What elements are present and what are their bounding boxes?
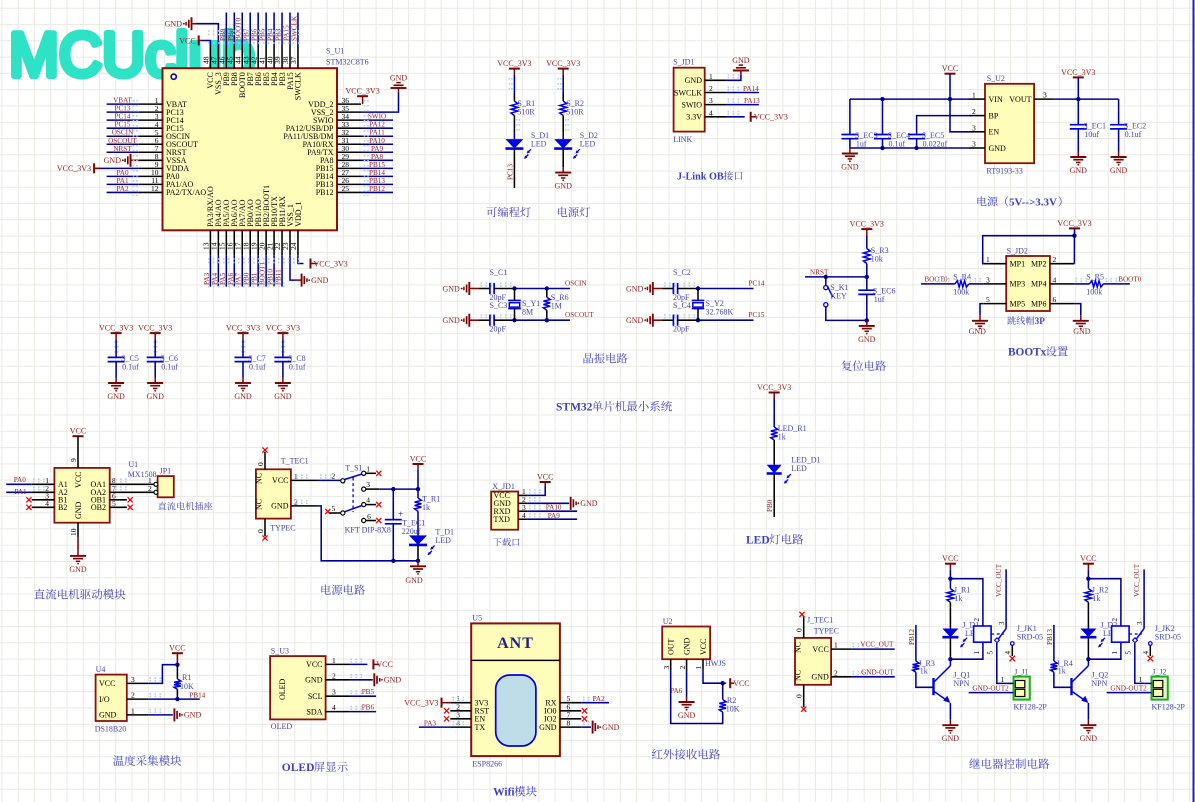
wire S_C5 to ground xyxy=(115,362,117,378)
mcu pin 13 PA3/RX/AO xyxy=(209,230,211,255)
jumper S_JD2 body xyxy=(1006,256,1050,311)
compile marks oled xyxy=(351,658,364,660)
led J_D2 xyxy=(1080,629,1096,638)
svg-text:2: 2 xyxy=(973,618,981,622)
wire S_U3 VCC xyxy=(349,663,367,665)
svg-text:NPN: NPN xyxy=(1091,679,1107,688)
caption reset circuit xyxy=(842,361,852,371)
svg-text:PA10: PA10 xyxy=(369,137,385,145)
wire S_EC5 bottom xyxy=(916,139,918,148)
svg-text:GND: GND xyxy=(274,392,292,401)
ground below J_Q1 xyxy=(949,720,951,726)
mcu pin 38 PA15 xyxy=(289,46,291,69)
svg-text:6: 6 xyxy=(367,512,371,521)
svg-text:SWIO: SWIO xyxy=(682,100,703,109)
wire net OSCOUT xyxy=(107,143,139,145)
mcu pin 10 PA0 xyxy=(139,175,163,177)
wire net PB5 xyxy=(265,13,267,46)
wire S_EC4 bottom xyxy=(882,139,884,148)
svg-text:0.1uf: 0.1uf xyxy=(889,140,906,149)
mcu pin 47 VSS_3 xyxy=(217,46,219,69)
compile marks right of mcu xyxy=(364,100,366,196)
svg-text:GND: GND xyxy=(678,711,696,720)
wire NRST xyxy=(805,276,867,278)
svg-text:VCC_3V3: VCC_3V3 xyxy=(850,220,884,229)
svg-text:GND: GND xyxy=(1073,327,1091,336)
ir receiver U2 body xyxy=(662,627,710,660)
wire S_EC2 to ground xyxy=(1118,129,1120,152)
svg-text:GND: GND xyxy=(989,144,1007,153)
svg-text:NC: NC xyxy=(794,670,803,681)
capacitor S_C5 0.1uf xyxy=(108,356,125,358)
power port VCC_3V3 bootx xyxy=(1069,227,1080,229)
svg-text:1: 1 xyxy=(294,472,298,481)
wire S_D2 to ground xyxy=(562,149,564,168)
T_TEC1 bottom stub NC xyxy=(264,519,266,537)
mcu pin 45 PB8 xyxy=(233,46,235,69)
wire crystal top xyxy=(697,289,699,301)
svg-text:5V-->3.3V: 5V-->3.3V xyxy=(1009,197,1057,209)
mcu pin 27 PB14 xyxy=(337,175,361,177)
wire net SWIO xyxy=(361,119,393,121)
wire net SWCLK xyxy=(297,13,299,46)
svg-text:VCC: VCC xyxy=(169,644,185,653)
power port VCC above X_JD1 xyxy=(540,481,551,483)
svg-text:PA6: PA6 xyxy=(670,687,683,695)
wire OA2 to JP1 pin2 xyxy=(110,491,154,493)
J_TEC1 bottom stub NC xyxy=(803,685,805,707)
wire wifi GND xyxy=(581,726,591,728)
wire S_R6 top xyxy=(546,289,548,298)
svg-text:32.768K: 32.768K xyxy=(706,308,734,317)
svg-text:PB9: PB9 xyxy=(219,28,227,41)
svg-text:J-Link OB: J-Link OB xyxy=(677,172,724,183)
svg-text:T_S1: T_S1 xyxy=(345,464,362,473)
svg-text:3.3V: 3.3V xyxy=(686,113,702,122)
svg-text:SRD-05: SRD-05 xyxy=(1155,633,1181,642)
wire J_D2 to collector node xyxy=(1087,637,1089,659)
svg-text:PA8: PA8 xyxy=(371,153,384,161)
wifi U5 ESP8266 body xyxy=(471,623,560,756)
svg-text:B2: B2 xyxy=(58,503,67,512)
mcu pin 21 PB10/TX xyxy=(273,230,275,255)
regulator pin GND xyxy=(969,147,985,149)
svg-text:37: 37 xyxy=(289,56,298,64)
power port VCC input xyxy=(945,73,956,75)
wire LED_R1 to LED_D1 xyxy=(773,440,775,465)
svg-text:VCC_OUT: VCC_OUT xyxy=(995,563,1003,597)
wire net BOOT1 xyxy=(265,255,267,286)
svg-text:1: 1 xyxy=(972,91,976,100)
svg-text:PA10: PA10 xyxy=(546,504,562,512)
svg-text:MP5: MP5 xyxy=(1010,299,1026,308)
svg-text:GND: GND xyxy=(442,284,460,293)
wire T_EC1 to bus xyxy=(392,524,394,561)
svg-text:5: 5 xyxy=(332,504,336,513)
T_TEC1 pin 1 VCC xyxy=(291,479,318,481)
wire S_EC2 top xyxy=(1118,99,1120,125)
svg-text:0.1uf: 0.1uf xyxy=(1125,130,1142,139)
mcu pin 31 PA10/RX xyxy=(337,143,361,145)
svg-text:GND: GND xyxy=(732,56,750,65)
wire jlink pin4 to VCC_3V3 xyxy=(727,116,745,118)
wire net PB6 xyxy=(257,13,259,46)
svg-text:LED: LED xyxy=(580,140,596,149)
jumper pins MP3 MP4 xyxy=(984,283,1007,285)
relay J_JK1 common contact xyxy=(1005,569,1007,628)
svg-text:VBAT: VBAT xyxy=(113,97,132,105)
svg-text:EN: EN xyxy=(989,128,1000,137)
J_TEC1 pin 2 GND xyxy=(831,676,851,678)
J_TEC1 top stub NC xyxy=(803,616,805,638)
svg-text:GND: GND xyxy=(626,284,644,293)
svg-text:BOOT0: BOOT0 xyxy=(1118,276,1142,284)
svg-text:25: 25 xyxy=(342,184,350,193)
wire S_U3 GND xyxy=(349,679,373,681)
no connect OB2 xyxy=(128,505,133,510)
regulator pin VOUT xyxy=(1034,98,1053,100)
mcu pin 46 PB9 xyxy=(225,46,227,69)
ground below reset xyxy=(866,320,868,326)
compile marks wifi xyxy=(453,697,466,699)
svg-text:3: 3 xyxy=(709,96,713,105)
wire net PA10 xyxy=(528,510,577,512)
no connect wifi RST xyxy=(444,708,449,713)
svg-text:GND: GND xyxy=(99,711,117,720)
svg-text:GND: GND xyxy=(104,156,122,165)
U1 pin 2 A2 xyxy=(32,491,55,493)
svg-text:1k: 1k xyxy=(1092,594,1100,603)
ground below S_C5 xyxy=(115,378,117,384)
svg-text:1k: 1k xyxy=(422,503,430,512)
wire S_C2 to net PC14 xyxy=(678,288,698,290)
power port VCC_3V3 above S_R1 xyxy=(509,68,520,70)
capacitor S_EC2 0.1uf xyxy=(1110,124,1127,126)
wire vcc to relay coil xyxy=(950,579,983,626)
svg-text:J_J2: J_J2 xyxy=(1152,667,1166,676)
S_U3 pin 3 SCL xyxy=(326,695,349,697)
wire S_D1 to net PC13 xyxy=(513,149,515,188)
caption power LED xyxy=(558,207,567,217)
svg-text:PA4: PA4 xyxy=(211,272,219,285)
svg-text:X_JD1: X_JD1 xyxy=(492,482,515,491)
svg-text:PA15: PA15 xyxy=(283,25,291,41)
svg-text:3: 3 xyxy=(998,621,1006,625)
wire crystal bottom xyxy=(697,309,699,321)
svg-text:3: 3 xyxy=(662,666,671,670)
power port VCC relay J_JK1 xyxy=(945,563,956,565)
svg-text:PA2: PA2 xyxy=(116,185,129,193)
T_TEC1 pin 2 GND xyxy=(291,505,318,507)
ground below S_EC3 xyxy=(849,148,851,154)
wire net PA1 xyxy=(107,183,139,185)
svg-text:PA9: PA9 xyxy=(371,145,384,153)
svg-text:VCC_3V3: VCC_3V3 xyxy=(99,324,133,333)
svg-text:KF128-2P: KF128-2P xyxy=(1014,703,1048,712)
mcu pin 29 PA8 xyxy=(337,159,361,161)
svg-text:PB15: PB15 xyxy=(369,161,385,169)
mcu pin 2 PC13 xyxy=(139,111,163,113)
svg-text:2: 2 xyxy=(294,497,298,506)
wire S_C1 to net OSCIN xyxy=(494,288,514,290)
power port VCC above T_R1 xyxy=(413,463,424,465)
capacitor S_EC1 10uf xyxy=(1070,124,1087,126)
no connect B2 xyxy=(26,505,31,510)
annotation DC motor socket xyxy=(158,502,166,510)
mcu pin 33 PA12/USB/DP xyxy=(337,127,361,129)
compile marks left of mcu xyxy=(133,100,135,196)
relay J_JK2 common contact xyxy=(1143,569,1145,628)
svg-text:GND: GND xyxy=(184,711,202,720)
wifi pin 7 IO2 xyxy=(560,718,581,720)
wire S_C7 to ground xyxy=(242,362,244,378)
svg-text:VCC_3V3: VCC_3V3 xyxy=(757,383,791,392)
svg-text:GND: GND xyxy=(271,502,289,511)
caption temperature module xyxy=(113,755,124,765)
svg-text:2: 2 xyxy=(1053,255,1057,264)
wire to S_C7 xyxy=(242,339,244,357)
svg-text:SWCLK: SWCLK xyxy=(294,72,303,100)
svg-text:MP6: MP6 xyxy=(1031,299,1047,308)
led T_D1 xyxy=(409,535,427,545)
svg-text:GND: GND xyxy=(69,565,87,574)
svg-text:1: 1 xyxy=(332,656,336,665)
wire S_EC5 top xyxy=(916,132,918,134)
connector J_J1 KF128-2P body xyxy=(1014,677,1030,700)
ground above jlink xyxy=(740,71,742,76)
svg-text:VCC: VCC xyxy=(74,472,83,488)
wire emitter to ground xyxy=(949,703,951,720)
wifi pin 8 GND xyxy=(560,726,581,728)
mcu pin 15 PA5/AO xyxy=(225,230,227,255)
wire to S_R3 xyxy=(866,235,868,248)
resistor J_R3 1k xyxy=(913,661,920,672)
X_JD1 pin 1 VCC xyxy=(518,494,528,496)
svg-text:SWCLK: SWCLK xyxy=(674,88,702,97)
capacitor S_C4 20pF xyxy=(672,315,674,326)
wire J_R2 to J_D2 xyxy=(1087,602,1089,628)
connector J_TEC1 TYPEC body xyxy=(795,638,831,685)
svg-text:1: 1 xyxy=(834,641,838,650)
wire S_R1 to S_D1 xyxy=(513,116,515,133)
svg-text:1k: 1k xyxy=(1058,667,1066,676)
svg-text:GND: GND xyxy=(311,276,329,285)
compile marks jlink xyxy=(728,74,741,76)
J_TEC1 pin 1 VCC xyxy=(831,648,851,650)
ground left of S_C4 xyxy=(652,314,654,327)
wire BP to cap S_EC5 xyxy=(917,116,969,133)
X_JD1 pin 3 RXD xyxy=(518,510,528,512)
wire S_R6 bottom xyxy=(546,310,548,320)
wire net OSCIN xyxy=(107,135,139,137)
svg-text:SDA: SDA xyxy=(306,707,322,716)
wire gnd to S_C4 xyxy=(653,319,663,321)
svg-text:2: 2 xyxy=(148,484,152,493)
svg-text:4: 4 xyxy=(332,703,336,712)
regulator pin EN xyxy=(969,131,985,133)
svg-text:PB14: PB14 xyxy=(189,691,205,699)
wire net PB8 xyxy=(233,13,235,46)
svg-text:0: 0 xyxy=(795,694,804,698)
wire J_J1 pin1 xyxy=(1006,682,1013,684)
led S_D1 xyxy=(505,139,523,149)
wire U4 VCC to R1 xyxy=(148,665,177,684)
regulator pin BP xyxy=(969,115,985,117)
svg-text:TX: TX xyxy=(475,723,486,732)
compile marks j_tec1 xyxy=(853,643,866,645)
svg-text:OSCIN: OSCIN xyxy=(112,129,134,137)
ground below MP6 xyxy=(1080,315,1082,321)
svg-text:TXD: TXD xyxy=(494,515,511,524)
wire GND rail xyxy=(850,147,969,149)
svg-text:ANT: ANT xyxy=(497,635,534,652)
wire S_EC3 top xyxy=(849,99,851,134)
no connect wifi IO0 xyxy=(582,708,587,713)
mcu pin 3 PC14 xyxy=(139,119,163,121)
capacitor S_C3 20pF xyxy=(489,315,491,326)
svg-text:VCC: VCC xyxy=(179,36,195,45)
ground at mcu pin 47 VSS_3 xyxy=(197,24,219,46)
svg-text:OLED: OLED xyxy=(278,678,287,700)
ground left of S_C1 xyxy=(468,282,470,295)
power port VCC_3V3 above S_C8 xyxy=(277,332,288,334)
ground below U2 xyxy=(686,697,688,703)
wire EN to VIN xyxy=(950,99,969,132)
wire net PA8 xyxy=(361,159,393,161)
svg-text:PA1: PA1 xyxy=(15,488,28,496)
svg-text:GND: GND xyxy=(74,501,83,519)
svg-text:J_TEC1: J_TEC1 xyxy=(807,615,833,624)
wire net PA6 xyxy=(233,255,235,286)
resistor S_R5 100k xyxy=(1074,283,1089,285)
wire coil bottom to collector node xyxy=(1088,642,1121,659)
wire S_C3 to net OSCOUT xyxy=(494,319,514,321)
svg-text:0.1uf: 0.1uf xyxy=(122,363,139,372)
svg-text:VCC: VCC xyxy=(376,660,392,669)
svg-text:510R: 510R xyxy=(566,108,584,117)
svg-text:2: 2 xyxy=(678,666,687,670)
mcu pin 12 PA2/TX/AO xyxy=(139,191,163,193)
wire net PB6 xyxy=(349,711,376,713)
svg-text:GND: GND xyxy=(1080,734,1098,743)
resistor R2 10K xyxy=(719,700,726,713)
svg-text:PB0: PB0 xyxy=(766,499,774,512)
wire vcc node to R2 xyxy=(722,683,724,699)
svg-text:VCC_3V3: VCC_3V3 xyxy=(754,113,788,122)
svg-text:S_U1: S_U1 xyxy=(326,47,344,56)
svg-text:S_R4: S_R4 xyxy=(953,272,971,281)
caption power 5V to 3.3V xyxy=(977,196,986,206)
svg-text:3: 3 xyxy=(986,275,990,284)
wire net PA9 xyxy=(361,151,393,153)
svg-text:PA2: PA2 xyxy=(593,695,606,703)
ground right of oled xyxy=(373,673,375,686)
no connect wifi IO2 xyxy=(582,716,587,721)
svg-text:2: 2 xyxy=(332,471,336,480)
svg-text:Wifi: Wifi xyxy=(493,787,515,799)
svg-text:0.022uf: 0.022uf xyxy=(923,140,948,149)
U1 pin 3 B1 xyxy=(32,499,55,501)
svg-text:SRD-05: SRD-05 xyxy=(1017,633,1043,642)
svg-text:3: 3 xyxy=(131,675,135,684)
svg-text:VCC: VCC xyxy=(942,554,958,563)
sensor U4 DS18B20 body xyxy=(96,675,127,721)
power port VCC_3V3 at mcu pin 9 VDDA xyxy=(94,167,139,169)
mcu pin 26 PB13 xyxy=(337,183,361,185)
svg-text:VIN: VIN xyxy=(989,95,1003,104)
svg-text:I/O: I/O xyxy=(99,695,110,704)
wire U2 GND xyxy=(686,671,688,697)
svg-text:GND-OUT: GND-OUT xyxy=(861,668,894,676)
svg-text:LED: LED xyxy=(746,535,770,547)
svg-text:PA13: PA13 xyxy=(744,97,760,105)
svg-text:GND: GND xyxy=(841,163,859,172)
compile marks above mcu xyxy=(208,30,300,32)
svg-text:HWJS: HWJS xyxy=(705,659,726,668)
mcu pin 20 PB2/BOOT1 xyxy=(265,230,267,255)
resistor J_R1 1k xyxy=(947,589,954,603)
wire to S_C5 xyxy=(115,339,117,357)
svg-text:VCC: VCC xyxy=(1080,554,1096,563)
wire VCC_3V3 to S_R2 xyxy=(562,75,564,93)
svg-text:PB12: PB12 xyxy=(316,188,334,197)
svg-text:VCC_3V3: VCC_3V3 xyxy=(1057,219,1091,228)
svg-text:0.1uf: 0.1uf xyxy=(161,363,178,372)
wire net PA15 xyxy=(289,13,291,46)
svg-text:1: 1 xyxy=(709,72,713,81)
wire vcc to MP1/MP2 xyxy=(1074,228,1076,235)
svg-text:GND-OUT2: GND-OUT2 xyxy=(1110,684,1147,692)
svg-text:GND: GND xyxy=(234,392,252,401)
svg-text:100k: 100k xyxy=(1086,287,1102,296)
svg-text:PB5: PB5 xyxy=(362,688,375,696)
wire net VBAT xyxy=(107,103,139,105)
power port VCC right of oled xyxy=(372,659,374,669)
wire net GND-OUT xyxy=(851,676,895,678)
svg-text:4: 4 xyxy=(1004,651,1012,655)
svg-text:1k: 1k xyxy=(920,667,928,676)
svg-text:2: 2 xyxy=(131,691,135,700)
no connect wifi EN xyxy=(444,716,449,721)
U2 pin 1 VCC xyxy=(702,659,704,670)
svg-text:KF128-2P: KF128-2P xyxy=(1152,703,1186,712)
capacitor T_EC1 220uf xyxy=(392,489,394,519)
wire vcc to relay coil xyxy=(1088,579,1121,626)
wire VIN rail xyxy=(850,98,969,100)
svg-text:20pF: 20pF xyxy=(673,325,690,334)
resistor S_R3 10k xyxy=(863,249,870,264)
svg-text:BP: BP xyxy=(989,111,999,120)
compile marks motor xyxy=(33,478,46,480)
ground below U1 xyxy=(77,550,79,556)
svg-text:GND: GND xyxy=(685,76,703,85)
svg-text:3: 3 xyxy=(1136,621,1144,625)
led LED_D1 xyxy=(767,465,782,474)
svg-text:220uf: 220uf xyxy=(402,527,421,536)
svg-text:GND: GND xyxy=(539,723,557,732)
wire net PA0 xyxy=(107,175,139,177)
mcu pin 16 PA6/AO xyxy=(233,230,235,255)
resistor J_R2 1k xyxy=(1085,589,1092,603)
svg-text:VCC_3V3: VCC_3V3 xyxy=(226,324,260,333)
svg-text:10uf: 10uf xyxy=(1084,130,1099,139)
key S_K1 xyxy=(825,277,827,285)
relay J_JK1 NC contact pin5 to connector xyxy=(997,643,1007,683)
svg-text:GND: GND xyxy=(626,316,644,325)
svg-text:4: 4 xyxy=(456,719,460,728)
wire net PB14 xyxy=(148,698,200,700)
caption DC motor driver module xyxy=(34,589,45,599)
